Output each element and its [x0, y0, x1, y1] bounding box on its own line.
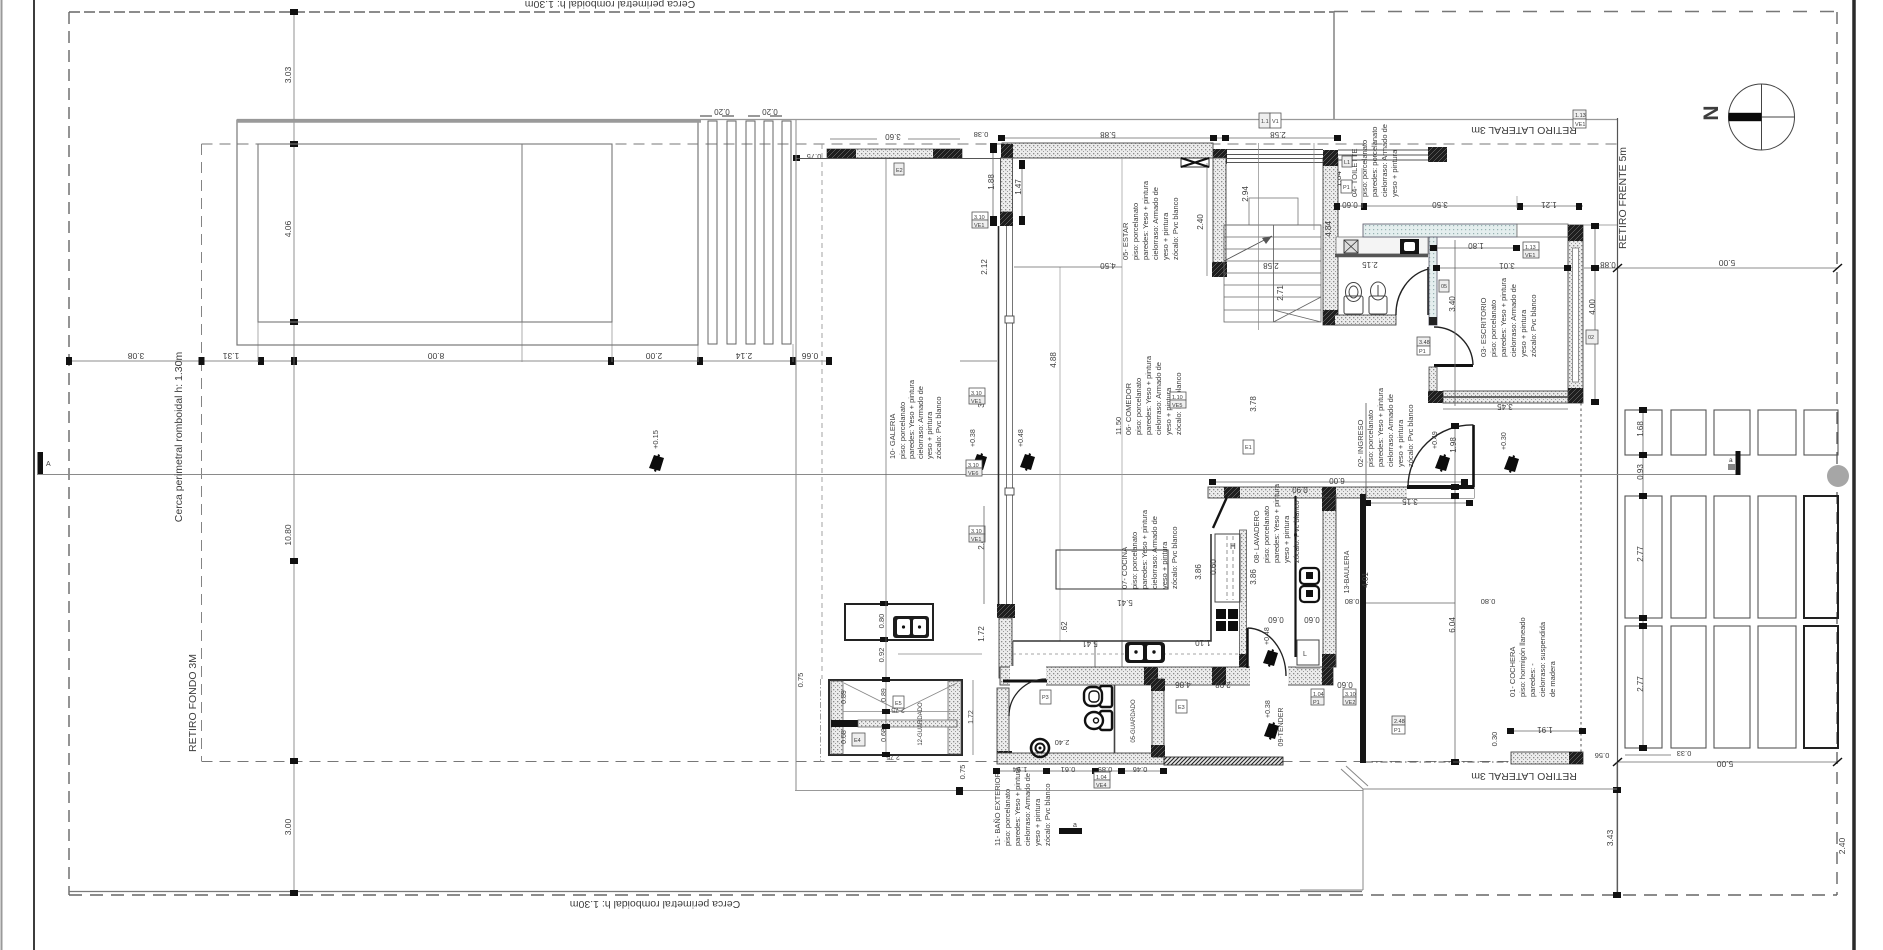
svg-text:zócalo: Pvc blanco: zócalo: Pvc blanco: [1292, 500, 1301, 563]
svg-text:V1: V1: [1272, 119, 1279, 125]
svg-text:3.78: 3.78: [1249, 396, 1258, 412]
label 10-GALERIA text block (rotated): [888, 379, 943, 459]
svg-text:0.60: 0.60: [1209, 559, 1218, 575]
north wall block west: [1001, 144, 1013, 158]
svg-text:+0.30: +0.30: [1501, 432, 1508, 450]
page border left thin: [1, 0, 3, 950]
estar interior dim texts (rotated): [977, 174, 1333, 642]
svg-text:E3: E3: [1178, 705, 1185, 711]
entry threshold white gap: [1407, 487, 1474, 498]
ingreso porch edge line y603: [1366, 602, 1455, 604]
toilet room fixtures: toilet: [1344, 283, 1363, 315]
svg-text:13-BAULERA: 13-BAULERA: [1344, 550, 1351, 593]
svg-text:0.68: 0.68: [841, 730, 848, 744]
svg-text:2.58: 2.58: [1263, 261, 1279, 270]
page border right dark: [1852, 0, 1856, 950]
svg-text:cielorraso: Armado de: cielorraso: Armado de: [1380, 124, 1389, 197]
kitchen counter mid dashed: [1013, 653, 1240, 655]
toilette door arc: [1396, 269, 1429, 315]
svg-text:E2: E2: [896, 168, 903, 174]
section mark bottom black T: [1059, 828, 1082, 834]
section mark right black bar: [1736, 451, 1741, 475]
tiny tag escritorio east 02: [1586, 330, 1598, 344]
svg-text:4.06: 4.06: [283, 220, 293, 237]
tiny tag stair: [1243, 440, 1254, 454]
galeria wall tag E2: [894, 163, 904, 175]
west dims line x1022: [1021, 162, 1023, 224]
svg-text:+0.48: +0.48: [1264, 627, 1271, 645]
svg-text:P1: P1: [1313, 700, 1320, 706]
driveway diagonal b: [1346, 766, 1368, 786]
lavadero east wall stipple: [1323, 498, 1336, 667]
svg-text:zócalo: Pvc blanco: zócalo: Pvc blanco: [1529, 294, 1538, 357]
svg-text:11- BAÑO EXTERIOR: 11- BAÑO EXTERIOR: [993, 771, 1002, 846]
svg-text:paredes: Yeso + pintura: paredes: Yeso + pintura: [1013, 766, 1022, 846]
svg-text:2.48: 2.48: [1394, 719, 1405, 725]
quincho divider stipple segment: [858, 720, 957, 727]
svg-text:0.38: 0.38: [974, 130, 989, 139]
pergola row3 slat5 thick: [1804, 626, 1838, 748]
svg-text:paredes: Yeso + pintura: paredes: Yeso + pintura: [1272, 483, 1281, 563]
stairs outline: [1224, 225, 1321, 322]
svg-text:02: 02: [1588, 335, 1594, 341]
svg-text:12-GUARDADO: 12-GUARDADO: [918, 702, 924, 746]
svg-text:piso: porcelanato: piso: porcelanato: [1134, 378, 1143, 435]
deck slat 3: [746, 121, 755, 344]
svg-text:L: L: [1303, 651, 1307, 658]
entry door arc: [1408, 425, 1474, 487]
level flag +0.38 comedor: [972, 453, 987, 471]
escritorio east block top: [1568, 225, 1583, 241]
dim ticks island: [880, 601, 888, 642]
svg-text:1.10: 1.10: [1172, 395, 1183, 401]
lavadero east block top: [1322, 498, 1336, 511]
lot boundary right dashed: [1836, 12, 1838, 895]
toilette tag ME1: [1344, 240, 1358, 253]
setback envelope dashed bottom y762: [202, 761, 1512, 763]
svg-text:RETIRO FONDO 3M: RETIRO FONDO 3M: [187, 654, 199, 752]
bathroom shower drain circles: [1031, 739, 1049, 757]
lot boundary top dashed sparse segment: [1334, 11, 1837, 13]
svg-text:0.75: 0.75: [796, 673, 805, 688]
svg-text:yeso + pintura: yeso + pintura: [1390, 149, 1399, 197]
svg-text:paredes: Yeso + pintura: paredes: Yeso + pintura: [1499, 277, 1508, 357]
tiny tag quincho2: [893, 696, 904, 708]
svg-text:paredes: Yeso + pintura: paredes: Yeso + pintura: [1144, 355, 1153, 435]
label 03-ESCRITORIO (rotated): [1479, 277, 1538, 357]
deck slat 4: [764, 121, 773, 344]
galeria west edge line x796: [795, 120, 797, 790]
baulera strip walls: [1335, 494, 1337, 667]
kitchen stove burners: [1216, 609, 1238, 631]
escritorio west wall stub: [1429, 367, 1437, 391]
svg-text:2.40: 2.40: [1055, 738, 1070, 747]
svg-text:3.86: 3.86: [1194, 564, 1203, 580]
svg-text:1.80: 1.80: [1468, 241, 1484, 250]
svg-text:0.80: 0.80: [877, 614, 886, 629]
west wall block lower: [997, 604, 1015, 618]
svg-text:yeso + pintura: yeso + pintura: [1396, 419, 1405, 467]
svg-text:0.92: 0.92: [877, 648, 886, 663]
svg-text:+0.38: +0.38: [970, 429, 977, 447]
svg-text:piso: porcelanato: piso: porcelanato: [1131, 203, 1140, 260]
south wall block c crosshatch: [1322, 667, 1333, 685]
dim 3.15 below wall (upside down): [1368, 502, 1470, 504]
svg-text:3.50: 3.50: [1432, 200, 1448, 209]
dim texts x294 (rotated): [283, 66, 293, 835]
pergola row2 slat5 thick: [1804, 496, 1838, 618]
svg-text:0.66: 0.66: [801, 351, 818, 361]
stairs center divider: [1273, 225, 1275, 322]
svg-text:0.93: 0.93: [1636, 464, 1645, 480]
north arrow east axis: [1762, 116, 1795, 118]
svg-text:0.68: 0.68: [881, 728, 888, 742]
pale wall band escritorio north: [1363, 224, 1517, 237]
svg-text:1.94: 1.94: [1013, 765, 1028, 774]
svg-text:cielorraso: Armado de: cielorraso: Armado de: [1150, 516, 1159, 589]
svg-text:piso: porcelanato: piso: porcelanato: [1003, 789, 1012, 846]
svg-text:0.20: 0.20: [714, 107, 730, 116]
svg-text:0.56: 0.56: [1595, 751, 1610, 760]
svg-text:E1: E1: [1245, 445, 1252, 451]
svg-text:3.86: 3.86: [1249, 569, 1258, 585]
svg-text:6.00: 6.00: [1329, 476, 1345, 485]
pool basin rect: [258, 144, 612, 322]
label 05-ESTAR (rotated): [1121, 180, 1180, 260]
tender south hatched wall: [1164, 757, 1283, 765]
kitchen sink double: [1125, 642, 1165, 663]
svg-text:1.72: 1.72: [968, 710, 975, 724]
pergola row1 slats: [1625, 410, 1838, 455]
lavadero alcove bottom line: [1296, 667, 1320, 669]
svg-text:piso: porcelanato: piso: porcelanato: [1489, 300, 1498, 357]
estar divider reference x1122: [1121, 158, 1123, 641]
quincho west wall stipple: [831, 681, 843, 754]
pale wall bottom cap: [1429, 317, 1437, 325]
svg-text:03- ESCRITORIO: 03- ESCRITORIO: [1479, 297, 1488, 357]
cochera roof dotted line x1581: [1580, 403, 1582, 762]
dim ticks y361: [66, 357, 832, 365]
galeria north edge line: [796, 158, 1002, 160]
toilette north window band: [1338, 150, 1428, 160]
west facade mullion a: [1005, 316, 1014, 323]
line below quincho: [795, 790, 1363, 792]
tiny tag west b: [969, 388, 985, 405]
svg-text:de madera: de madera: [1548, 660, 1557, 697]
svg-text:+0.49: +0.49: [1432, 431, 1439, 449]
tiny tag west a: [972, 212, 988, 229]
svg-text:4.50: 4.50: [1100, 261, 1116, 270]
quincho center dim line: [885, 159, 887, 755]
svg-text:a: a: [1729, 457, 1733, 464]
cochera south hatched wall: [1511, 752, 1583, 764]
escritorio south block west: [1428, 391, 1443, 403]
svg-text:1.91: 1.91: [1537, 725, 1553, 734]
svg-text:3.10: 3.10: [1345, 692, 1356, 698]
tiny tag quincho: [852, 733, 865, 746]
svg-text:+0.15: +0.15: [651, 430, 660, 449]
svg-text:VE4: VE4: [1096, 783, 1106, 789]
svg-text:cielorraso: Armado de: cielorraso: Armado de: [1509, 284, 1518, 357]
tiny tag toilette window: [1342, 156, 1352, 167]
bathroom west wall stipple: [997, 688, 1009, 753]
svg-text:yeso + pintura: yeso + pintura: [1519, 309, 1528, 357]
svg-text:4.00: 4.00: [1588, 299, 1597, 315]
svg-text:0.80: 0.80: [1345, 597, 1360, 606]
svg-text:0.30: 0.30: [1490, 732, 1499, 747]
svg-text:0.33: 0.33: [1677, 749, 1692, 758]
west wall lower stipple (bath): [999, 618, 1012, 678]
svg-text:cielorraso: Armado de: cielorraso: Armado de: [1154, 362, 1163, 435]
svg-text:3.48: 3.48: [1419, 340, 1430, 346]
toilet room south block: [1325, 310, 1335, 325]
pool deck outer rect: [237, 120, 698, 345]
estar dim line y267: [1014, 266, 1122, 268]
tiny tag kitchen TVB: [966, 460, 982, 477]
divider block bottom: [1239, 654, 1248, 667]
lot boundary left dashed: [68, 12, 70, 895]
galeria column dashdot extension: [820, 679, 822, 762]
stair west wall block bottom: [1212, 262, 1227, 277]
tiny tag comedor VE5: [1170, 392, 1186, 409]
svg-text:N: N: [1700, 105, 1723, 120]
svg-text:3.01: 3.01: [1499, 261, 1515, 270]
svg-text:05: 05: [1441, 284, 1447, 290]
svg-text:0.89: 0.89: [841, 690, 848, 704]
level flag +0.48 tender: [1263, 649, 1278, 667]
entry door leaf: [1472, 425, 1475, 487]
pergola dim 0.33 bottom: [1625, 754, 1671, 756]
north window X symbol estar: [1181, 158, 1209, 167]
stairs walk diagonal with arrow: [1224, 236, 1272, 261]
level flag +0.30 front: [1504, 455, 1519, 473]
svg-text:5.41: 5.41: [1117, 598, 1133, 607]
svg-text:zócalo: Pvc blanco: zócalo: Pvc blanco: [1406, 404, 1415, 467]
tiny tag bath a: [1040, 690, 1051, 704]
svg-text:5.88: 5.88: [1100, 130, 1116, 139]
svg-text:0.75: 0.75: [807, 152, 822, 161]
north wall block east: [1323, 150, 1338, 165]
kitchen lavadero divider wall: [1240, 530, 1247, 667]
kitchen south wall band: [1000, 667, 1333, 685]
svg-text:VE1: VE1: [974, 223, 984, 229]
svg-text:4.88: 4.88: [1049, 352, 1058, 368]
svg-text:VE1: VE1: [1525, 253, 1535, 259]
pergola dim line x1643: [1642, 410, 1644, 748]
stairs break X: [1274, 297, 1322, 322]
svg-text:E4: E4: [854, 738, 861, 744]
guardado east wall block bottom: [1151, 745, 1165, 757]
svg-text:VE1: VE1: [1575, 122, 1585, 128]
cochera retiro dashdot y762: [1366, 761, 1511, 763]
dim line 3.60: [830, 138, 877, 140]
svg-text:3.60: 3.60: [885, 132, 901, 141]
escritorio door leaf: [1434, 364, 1473, 367]
svg-text:VE6: VE6: [968, 471, 978, 477]
deck slat 1: [708, 121, 717, 344]
dim 1.80 (upside down): [1434, 247, 1517, 249]
svg-text:paredes: -: paredes: -: [1528, 663, 1537, 697]
svg-text:10- GALERIA: 10- GALERIA: [888, 414, 897, 459]
stairs extension lines: [1258, 143, 1260, 330]
tiny tag escritorio 05: [1439, 280, 1449, 292]
svg-text:1.98: 1.98: [1449, 437, 1458, 453]
line right of island: [898, 653, 982, 655]
pergola row3 slats: [1625, 626, 1796, 748]
svg-text:VE1: VE1: [971, 399, 981, 405]
escritorio door arc: [1434, 327, 1473, 365]
slat dim arrows b: [748, 115, 782, 117]
svg-text:Cerca perimetral romboidal h:: Cerca perimetral romboidal h: 1.30m: [173, 352, 185, 523]
kitchen counter depth band lines: [1012, 641, 1014, 667]
comedor south block b: [1322, 487, 1336, 498]
driveway vertical line x1363: [1362, 789, 1364, 890]
dim 1.9M bottom chain: [997, 770, 1164, 772]
svg-text:0.89: 0.89: [881, 688, 888, 702]
svg-text:zócalo: Pvc blanco: zócalo: Pvc blanco: [1171, 197, 1180, 260]
label 11-BANO EXTERIOR (rotated): [993, 766, 1052, 846]
svg-text:zócalo: Pvc blanco: zócalo: Pvc blanco: [1043, 783, 1052, 846]
svg-text:0.60: 0.60: [1268, 615, 1284, 624]
deck slat 5: [782, 121, 791, 344]
escritorio east wall stipple: [1568, 225, 1583, 403]
svg-text:2.12: 2.12: [980, 259, 989, 275]
tiny tag north P: [1573, 110, 1586, 128]
svg-text:RETIRO FRENTE 5m: RETIRO FRENTE 5m: [1617, 147, 1629, 249]
west dims line x993: [992, 145, 994, 224]
west wall block: [1000, 212, 1013, 226]
dim ticks x294: [290, 9, 298, 896]
bathroom west block bottom: [997, 751, 1012, 764]
south wall block b: [1212, 667, 1226, 685]
svg-text:paredes: Yeso + pintura: paredes: Yeso + pintura: [907, 379, 916, 459]
svg-text:4.01: 4.01: [1361, 572, 1370, 588]
bathroom south wall band: [997, 753, 1164, 764]
svg-text:0.61: 0.61: [1061, 765, 1076, 774]
svg-text:piso: porcelanato: piso: porcelanato: [1262, 506, 1271, 563]
house top dim line y138: [1002, 137, 1338, 139]
svg-text:1.72: 1.72: [977, 626, 986, 642]
galeria north wall dark block east: [933, 149, 962, 158]
svg-text:01- COCHERA: 01- COCHERA: [1508, 647, 1517, 697]
pergola row2 slats: [1625, 496, 1796, 618]
galeria island sink unit: [893, 616, 929, 638]
svg-text:yeso + pintura: yeso + pintura: [1033, 798, 1042, 846]
svg-text:+0.38: +0.38: [1265, 700, 1272, 718]
svg-text:3.45: 3.45: [1497, 402, 1513, 411]
escritorio south wall inner line: [1443, 396, 1568, 398]
toilet room fixtures: bidet: [1369, 282, 1387, 314]
escritorio south wall band: [1443, 391, 1568, 403]
stair west wall stipple: [1213, 158, 1226, 266]
label 01-COCHERA (rotated): [1508, 617, 1557, 697]
tiny tag bath b: [1094, 772, 1110, 789]
svg-text:P3: P3: [1042, 695, 1049, 701]
bathroom door leaf: [1003, 680, 1047, 683]
level flag +0.49 ingreso: [1435, 454, 1450, 472]
comedor south block a: [1224, 487, 1240, 498]
driveway bottom line: [1300, 889, 1363, 891]
svg-text:2.00: 2.00: [645, 351, 662, 361]
svg-text:1.88: 1.88: [987, 174, 996, 190]
stairs treads: [1224, 225, 1321, 310]
lavadero black partition line: [1294, 496, 1296, 657]
estar dim line x1207 niche: [1206, 163, 1208, 276]
svg-text:0.88: 0.88: [1600, 260, 1616, 269]
svg-text:cielorraso: Armado de: cielorraso: Armado de: [1023, 773, 1032, 846]
stair north window band lines: [1226, 150, 1323, 163]
svg-text:1.10: 1.10: [1195, 638, 1211, 647]
tiny tag tender 3.10: [1343, 689, 1356, 706]
dim line 5.00 front top y268: [1584, 267, 1837, 269]
svg-text:1.04: 1.04: [1096, 775, 1107, 781]
label 06-COMEDOR (rotated): [1114, 355, 1183, 435]
dim line 5.00 front bottom y762: [1617, 761, 1837, 763]
svg-text:yeso + pintura: yeso + pintura: [1161, 212, 1170, 260]
svg-text:2.58: 2.58: [1270, 130, 1286, 139]
driveway diagonal a: [1341, 769, 1363, 789]
svg-text:07- COCINA: 07- COCINA: [1120, 547, 1129, 589]
svg-text:1.04: 1.04: [1313, 692, 1324, 698]
ingreso west edge line: [1365, 403, 1367, 487]
svg-text:1.13: 1.13: [1525, 245, 1536, 251]
tiny tag tender 1.04: [1311, 689, 1324, 706]
svg-text:VE1: VE1: [971, 537, 981, 543]
svg-text:yeso + pintura: yeso + pintura: [925, 411, 934, 459]
comedor south wall band: [1208, 487, 1470, 498]
dim line x1455 lower: [1454, 425, 1456, 762]
svg-text:2.77: 2.77: [1636, 546, 1645, 562]
dim ticks y205: [1334, 203, 1582, 210]
bathroom bidet: [1085, 711, 1112, 730]
page border left inner dark: [33, 0, 35, 950]
kitchen swing door diagonal: [1213, 497, 1227, 528]
svg-text:VE5: VE5: [1172, 403, 1182, 409]
escritorio east wall window line: [1573, 248, 1579, 382]
stair east wall stipple: [1323, 158, 1338, 325]
baulera east thick wall: [1360, 494, 1366, 763]
galeria north wall hatched band: [827, 149, 962, 158]
house north wall band: [1002, 143, 1213, 158]
setback envelope dashed top y144: [202, 143, 1618, 145]
quincho right dim 1.72 (rotated): [972, 680, 974, 755]
bathroom door arc: [1009, 679, 1046, 716]
lavadero door opening gap: [1250, 666, 1288, 686]
svg-text:3.08: 3.08: [127, 351, 144, 361]
level flag +0.15: [649, 454, 664, 472]
west facade glass edge line: [998, 226, 1000, 604]
svg-text:H: H: [1230, 542, 1236, 551]
svg-text:P1: P1: [1419, 349, 1426, 355]
ticks 5.00 bottom: [1613, 758, 1842, 766]
label 08-LAVADERO (rotated): [1252, 483, 1301, 563]
tiny tag west c: [969, 526, 985, 543]
ticks 5.00 top: [1613, 264, 1842, 272]
svg-text:3.10: 3.10: [971, 391, 982, 397]
svg-text:piso: porcelanato: piso: porcelanato: [1360, 140, 1369, 197]
tiny tag ingreso P1: [1417, 337, 1430, 355]
svg-text:6.04: 6.04: [1448, 617, 1457, 633]
toilette vanity front thick line: [1335, 254, 1428, 258]
dim 4.00 right of escritorio (rotated): [1594, 226, 1596, 402]
deck slat 2: [727, 121, 736, 344]
svg-text:4.86: 4.86: [1175, 680, 1191, 689]
svg-text:yeso + pintura: yeso + pintura: [1282, 515, 1291, 563]
svg-text:06- COMEDOR: 06- COMEDOR: [1124, 382, 1133, 435]
svg-text:2.40: 2.40: [1837, 837, 1847, 854]
level flag tender2: [1264, 722, 1279, 740]
svg-text:0.60: 0.60: [1304, 615, 1320, 624]
